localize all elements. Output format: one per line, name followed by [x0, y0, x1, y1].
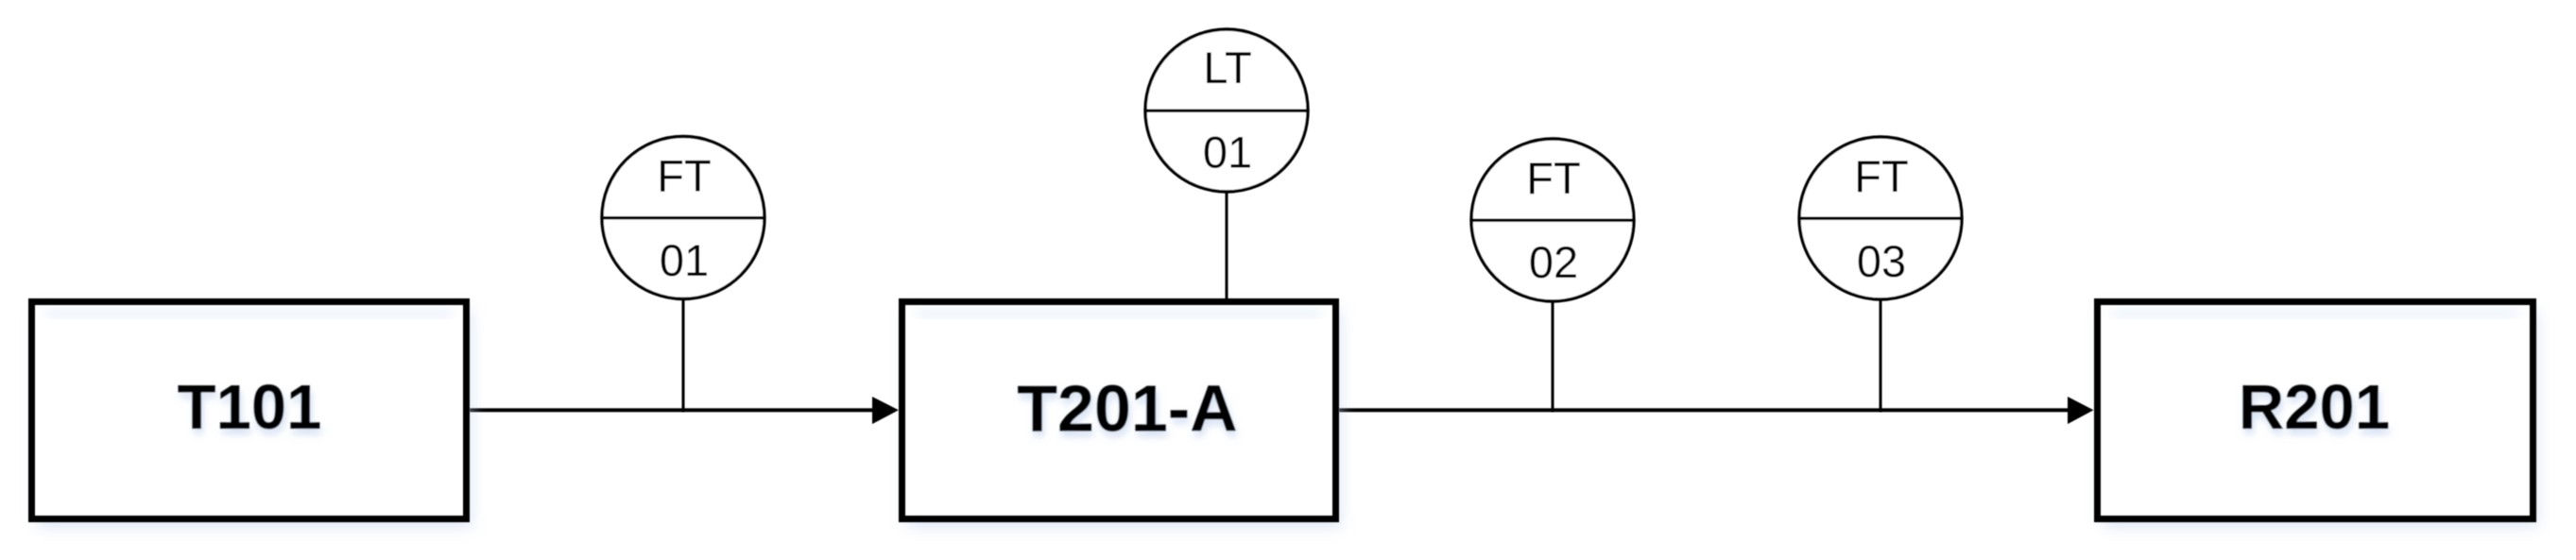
svg-text:T201-A: T201-A [1017, 372, 1237, 446]
svg-text:T101: T101 [178, 372, 322, 443]
arrowhead into R201 [2068, 397, 2094, 424]
label T101 [178, 372, 322, 443]
wire: FT01 drop line [682, 298, 685, 412]
wire: LT01 drop line [1226, 191, 1228, 301]
svg-text:02: 02 [1529, 237, 1578, 287]
svg-text:FT: FT [1854, 151, 1908, 201]
instrument LT01 [1144, 29, 1310, 192]
vessel T201-A [902, 302, 1342, 528]
svg-text:LT: LT [1203, 42, 1251, 93]
label R201 [2239, 372, 2390, 443]
svg-text:03: 03 [1857, 236, 1906, 286]
svg-text:FT: FT [657, 151, 711, 201]
svg-text:R201: R201 [2239, 372, 2390, 443]
wire: FT03 drop line [1880, 298, 1882, 412]
label T201-A [1017, 372, 1237, 446]
instrument FT03 [1798, 137, 1964, 299]
instrument FT02 [1470, 139, 1636, 301]
wire: flow line T101 to T201-A [470, 408, 876, 412]
wire: flow line T201-A to R201 [1339, 408, 2070, 412]
svg-text:01: 01 [660, 235, 709, 285]
arrowhead into T201-A [872, 397, 899, 424]
instrument FT01 [601, 137, 766, 299]
svg-text:01: 01 [1203, 127, 1252, 178]
svg-text:FT: FT [1526, 153, 1580, 203]
vessel T101 [32, 302, 472, 528]
vessel R201 [2098, 302, 2539, 528]
wire: FT02 drop line [1552, 300, 1554, 412]
